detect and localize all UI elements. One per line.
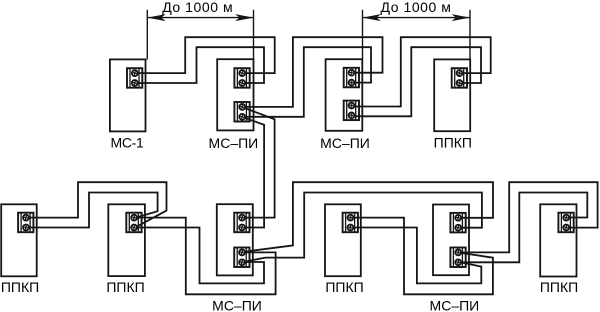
terminal block ППКП B2: [126, 213, 141, 233]
device box МС-ПИ B3 (bottom row): [217, 204, 253, 275]
wire МС-1 terminal 2 to МС-ПИ U2 top connector terminal 2: [135, 47, 264, 83]
dimension line 2: [363, 17, 471, 19]
svg-text:МС–ПИ: МС–ПИ: [430, 298, 480, 312]
wire ППКП B2 terminal 2 under МС-ПИ B3 to its bottom connector terminal 2: [134, 228, 264, 284]
svg-text:ППКП: ППКП: [434, 134, 472, 150]
terminal block МС-ПИ U2 top: [234, 68, 249, 88]
wire ППКП B4 terminal 2 under МС-ПИ B5 to its bottom connector terminal 2: [350, 228, 481, 284]
terminal block МС-ПИ U2 bottom: [234, 102, 249, 122]
wire riser МС-ПИ U2 bottom connector terminal 2 down to МС-ПИ B3 top connector terminal 2: [242, 117, 264, 227]
wire МС-ПИ B3 bottom connector terminal 1 over ППКП B4 to МС-ПИ B5 top connector terminal 1: [243, 182, 493, 252]
terminal block МС-ПИ U3 bottom: [344, 101, 359, 121]
wire МС-ПИ B3 bottom connector terminal 2 over ППКП B4 to МС-ПИ B5 top connector terminal 2: [243, 193, 482, 263]
device box ППКП B4 (bottom row): [325, 204, 361, 276]
dimension line 1: [147, 17, 253, 19]
wire МС-ПИ U2 bottom connector terminal 1 to МС-ПИ U3 top connector terminal 1: [242, 37, 382, 107]
wire ППКП B1 terminal 2 to ППКП B2 terminal 1: [26, 193, 158, 228]
terminal block ППКП B4: [343, 213, 358, 233]
device box ППКП B6 (bottom row): [540, 204, 576, 276]
wire riser МС-ПИ U2 bottom connector terminal 1 down to МС-ПИ B3 top connector terminal 1: [242, 107, 275, 217]
device box МС-ПИ U3 (top row): [326, 59, 363, 131]
device box ППКП B2 (bottom row): [108, 204, 145, 276]
terminal block МС-ПИ B5 bottom: [450, 248, 465, 268]
svg-text:ППКП: ППКП: [106, 279, 144, 295]
wire ППКП B2 terminal 1 under МС-ПИ B3 to its bottom connector terminal 1: [134, 218, 276, 295]
terminal block МС-ПИ B5 top: [450, 213, 465, 233]
terminal block ППКП B6: [558, 213, 573, 233]
svg-text:ППКП: ППКП: [1, 279, 39, 295]
wire МС-1 terminal 1 to МС-ПИ U2 top connector terminal 1: [135, 37, 275, 73]
svg-text:МС–ПИ: МС–ПИ: [320, 135, 370, 151]
device box МС-ПИ U2 (top row): [217, 59, 253, 130]
terminal block ППКП B1: [18, 213, 33, 233]
svg-text:До 1000 м: До 1000 м: [162, 0, 233, 15]
terminal block МС-ПИ B3 top: [234, 213, 249, 233]
terminal block МС-ПИ U3 top: [344, 68, 359, 88]
dimension extension line 1 right: [253, 10, 255, 59]
device box ППКП U4 (top row): [434, 59, 470, 131]
wire ППКП B4 terminal 1 under МС-ПИ B5 to its bottom connector terminal 1: [350, 218, 493, 295]
terminal block МС-ПИ B3 bottom: [234, 248, 249, 268]
dimension extension line 1 left: [146, 10, 148, 60]
terminal block of МС-1: [127, 68, 142, 88]
svg-text:МС–ПИ: МС–ПИ: [212, 298, 262, 312]
svg-text:МС-1: МС-1: [110, 134, 144, 150]
svg-text:МС–ПИ: МС–ПИ: [209, 135, 259, 151]
arrowhead dim1 right: [235, 14, 253, 21]
svg-text:ППКП: ППКП: [540, 279, 578, 295]
wire МС-ПИ B5 bottom connector terminal 1 to ППКП B6 terminal 2: [458, 182, 597, 252]
dimension extension line 2 left: [362, 10, 364, 59]
device box ППКП B1 (bottom row): [1, 204, 37, 276]
terminal block ППКП U4: [452, 68, 467, 88]
device box МС-1 (top row): [110, 59, 146, 131]
dimension extension line 2 right: [469, 10, 471, 60]
svg-text:ППКП: ППКП: [325, 279, 363, 295]
svg-text:До 1000 м: До 1000 м: [381, 0, 452, 15]
wire МС-ПИ U3 bottom connector terminal 2 to ППКП U4 terminal 2: [352, 47, 482, 116]
device box МС-ПИ B5 (bottom row): [433, 205, 469, 276]
arrowhead dim2 right: [452, 14, 470, 21]
arrowhead dim2 left: [363, 14, 381, 21]
arrowhead dim1 left: [147, 14, 165, 21]
wire МС-ПИ B5 bottom connector terminal 2 to ППКП B6 terminal 1: [458, 193, 587, 263]
wire ППКП B1 terminal 1 to ППКП B2 terminal 2: [26, 182, 167, 227]
wire МС-ПИ U3 bottom connector terminal 1 to ППКП U4 terminal 1: [352, 37, 491, 106]
wire МС-ПИ U2 bottom connector terminal 2 to МС-ПИ U3 top connector terminal 2: [242, 47, 371, 117]
